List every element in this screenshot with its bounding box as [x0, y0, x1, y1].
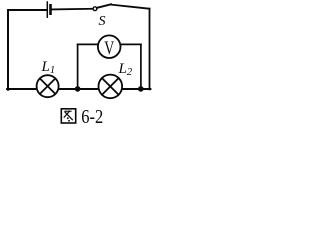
- battery BT (long plate + short thick plate): [47, 2, 50, 17]
- wire top-left (left corner to battery): [8, 9, 46, 11]
- svg-text:6-2: 6-2: [81, 106, 103, 126]
- wire voltmeter branch top horizontal: [78, 43, 141, 45]
- node junction right (L2/voltmeter): [138, 86, 144, 92]
- wire bottom horizontal: [7, 88, 150, 90]
- svg-text:V: V: [104, 39, 114, 59]
- switch S (pivot circle + open blade): [93, 4, 111, 10]
- svg-text:S: S: [99, 14, 106, 29]
- wire left vertical: [7, 10, 9, 90]
- svg-text:L2: L2: [118, 61, 133, 78]
- wire battery to switch: [52, 8, 93, 11]
- caption glyph 图 (drawn): [61, 109, 75, 123]
- wire voltmeter branch left vertical: [77, 44, 79, 88]
- voltmeter U1 (circle with V): [98, 35, 121, 59]
- svg-text:L1: L1: [41, 59, 56, 76]
- wire right vertical: [149, 9, 151, 90]
- wire voltmeter branch right vertical: [140, 44, 142, 88]
- lamp L1 (circle with cross): [37, 75, 59, 97]
- wire switch to top-right corner: [111, 5, 150, 9]
- node junction left (L1/L2/voltmeter): [75, 86, 81, 92]
- lamp L2 (circle with cross): [99, 75, 123, 99]
